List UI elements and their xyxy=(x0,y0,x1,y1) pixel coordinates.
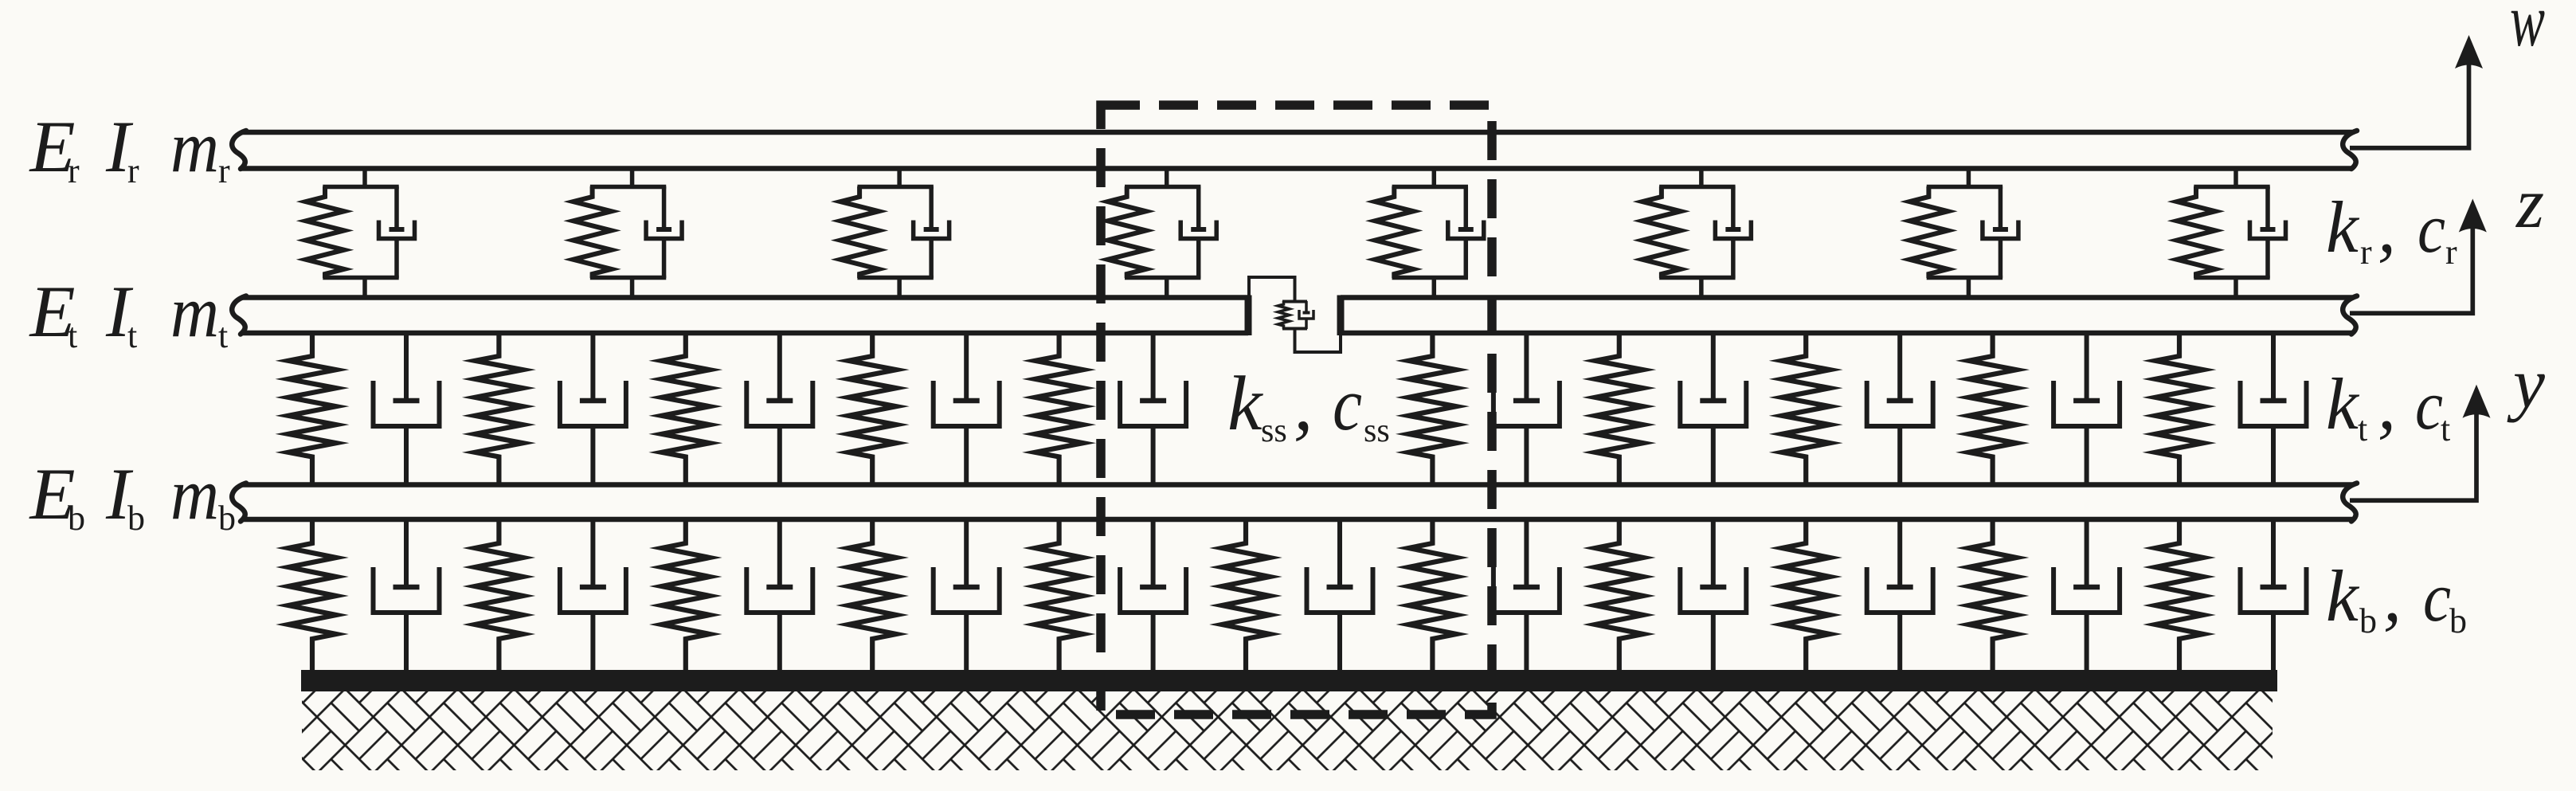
svg-text:m: m xyxy=(170,271,219,352)
wire: unit 5 bottom bar xyxy=(1392,276,1468,280)
svg-text:c: c xyxy=(2417,190,2445,268)
spring k_r4 xyxy=(1108,186,1146,278)
spring k_t3 xyxy=(662,333,710,485)
svg-text:t: t xyxy=(218,316,228,355)
wire: unit 8 top bar xyxy=(2194,185,2269,190)
svg-text:m: m xyxy=(170,453,219,535)
damper c_b8 xyxy=(1680,519,1746,670)
svg-text:r: r xyxy=(2445,233,2457,272)
spring k_r6 xyxy=(1642,186,1681,278)
wire: unit 1 bottom bar xyxy=(323,276,398,280)
damper c_t4 xyxy=(934,333,1000,485)
damper c_r8 xyxy=(2250,186,2286,278)
damper c_b10 xyxy=(2053,519,2120,670)
spring k_b7 xyxy=(1408,519,1456,670)
svg-text:b: b xyxy=(2449,601,2467,640)
svg-text:b: b xyxy=(68,499,85,538)
damper c_b2 xyxy=(560,519,626,670)
damper c_t10 xyxy=(2053,333,2120,485)
wire: unit 3 lower stem xyxy=(897,277,902,298)
damper c_b1 xyxy=(374,519,440,670)
wire: unit 7 bottom bar xyxy=(1927,276,2002,280)
subgrade hatch (basket weave) xyxy=(302,691,2273,770)
wire: unit 6 lower stem xyxy=(1699,277,1704,298)
rail beam left break xyxy=(232,131,246,169)
svg-text:b: b xyxy=(218,499,236,538)
damper c_t9 xyxy=(1867,333,1933,485)
spring k_ss xyxy=(1278,301,1290,329)
wire: unit 3 bottom bar xyxy=(857,276,933,280)
wire: unit 5 top bar xyxy=(1392,185,1468,190)
wire: unit 2 lower stem xyxy=(630,277,635,298)
wire: unit 7 lower stem xyxy=(1967,277,1971,298)
svg-text:c: c xyxy=(2423,559,2451,636)
spring k_t10 xyxy=(1969,333,2017,485)
wire: unit 6 top bar xyxy=(1659,185,1735,190)
spring k_b6 xyxy=(1222,519,1270,670)
svg-text:k: k xyxy=(2326,555,2360,636)
svg-text:ss: ss xyxy=(1261,413,1287,449)
damper c_t3 xyxy=(746,333,812,485)
spring k_b9 xyxy=(1782,519,1830,670)
svg-text:w: w xyxy=(2510,0,2545,62)
slab beam right break xyxy=(2343,296,2357,335)
wire: shear link to right slab segment xyxy=(1295,329,1341,352)
damper c_t8 xyxy=(1680,333,1746,485)
wire: unit 7 top bar xyxy=(1927,185,2002,190)
svg-text:c: c xyxy=(1333,363,1362,446)
spring k_t8 xyxy=(1595,333,1643,485)
damper c_b7 xyxy=(1494,519,1560,670)
spring k_b10 xyxy=(1969,519,2017,670)
spring k_b3 xyxy=(662,519,710,670)
wire: unit 2 top bar xyxy=(590,185,666,190)
damper c_r2 xyxy=(646,186,682,278)
wire: unit 6 bottom bar xyxy=(1659,276,1735,280)
damper c_r1 xyxy=(379,186,415,278)
wire: unit 6 upper stem xyxy=(1699,169,1704,187)
svg-text:k: k xyxy=(1227,361,1263,447)
wire: unit 4 top bar xyxy=(1125,185,1200,190)
spring k_b8 xyxy=(1595,519,1643,670)
wire: unit 4 upper stem xyxy=(1165,169,1169,187)
damper c_t1 xyxy=(374,333,440,485)
wire: unit 2 upper stem xyxy=(630,169,635,187)
rail pad fastener unit 2 (k_r,c_r) xyxy=(574,169,682,298)
svg-text:t: t xyxy=(127,316,137,355)
wire: unit 3 upper stem xyxy=(897,169,902,187)
svg-text:,: , xyxy=(1294,361,1313,447)
svg-text:t: t xyxy=(2441,409,2450,448)
shear unit bracket top bar xyxy=(1282,300,1307,303)
svg-text:y: y xyxy=(2507,344,2545,423)
dashed unit cell box xyxy=(1101,105,1492,715)
damper c_b11 xyxy=(2241,519,2307,670)
svg-text:r: r xyxy=(218,151,230,190)
wire: unit 8 lower stem xyxy=(2233,277,2238,298)
wire: unit 4 lower stem xyxy=(1165,277,1169,298)
spring k_r1 xyxy=(306,186,344,278)
svg-text:m: m xyxy=(170,106,219,187)
rail pad fastener unit 8 (k_r,c_r) xyxy=(2177,169,2286,298)
damper c_r4 xyxy=(1180,186,1216,278)
rail pad fastener unit 3 (k_r,c_r) xyxy=(840,169,949,298)
spring k_b1 xyxy=(288,519,336,670)
track slab beam E_t I_t m_t xyxy=(241,298,2352,334)
damper c_ss xyxy=(1299,301,1313,329)
spring k_r3 xyxy=(840,186,879,278)
svg-text:,: , xyxy=(2378,186,2396,268)
damper c_b3 xyxy=(746,519,812,670)
spring k_t9 xyxy=(1782,333,1830,485)
wire: unit 5 upper stem xyxy=(1432,169,1437,187)
wire: unit 1 top bar xyxy=(323,185,398,190)
svg-text:ss: ss xyxy=(1364,413,1390,449)
svg-text:t: t xyxy=(68,316,77,355)
rail pad fastener unit 5 (k_r,c_r) xyxy=(1375,169,1483,298)
rail pad fastener unit 4 (k_r,c_r) xyxy=(1108,169,1217,298)
spring k_t5 xyxy=(1035,333,1083,485)
spring k_t11 xyxy=(2155,333,2203,485)
wire: unit 7 upper stem xyxy=(1967,169,1971,187)
svg-text:t: t xyxy=(2358,409,2367,448)
spring k_r5 xyxy=(1375,186,1413,278)
wire: unit 8 bottom bar xyxy=(2194,276,2269,280)
damper c_r7 xyxy=(1983,186,2018,278)
damper c_b6 xyxy=(1307,519,1373,670)
rail pad fastener unit 1 (k_r,c_r) xyxy=(306,169,415,298)
slab beam left break xyxy=(232,296,246,335)
rail beam right break xyxy=(2343,131,2357,169)
svg-text:,: , xyxy=(2383,555,2402,636)
spring k_r7 xyxy=(1909,186,1948,278)
base beam left break xyxy=(232,484,246,522)
base beam right break xyxy=(2343,484,2357,522)
damper c_r5 xyxy=(1448,186,1484,278)
spring k_r2 xyxy=(574,186,612,278)
spring k_b4 xyxy=(848,519,896,670)
rigid foundation bar xyxy=(301,670,2277,691)
shear unit bracket bottom bar xyxy=(1282,327,1307,331)
damper c_b5 xyxy=(1120,519,1186,670)
svg-text:,: , xyxy=(2378,363,2396,444)
svg-text:b: b xyxy=(2359,601,2377,640)
damper c_r6 xyxy=(1715,186,1751,278)
spring k_b11 xyxy=(2155,519,2203,670)
wire: unit 1 lower stem xyxy=(362,277,367,298)
slab right segment end cap xyxy=(1337,296,1345,336)
wire: unit 8 upper stem xyxy=(2233,169,2238,187)
y (base deflection) axis arrow xyxy=(2350,413,2476,500)
svg-text:k: k xyxy=(2326,363,2360,444)
spring k_r8 xyxy=(2177,186,2215,278)
rail beam E_r I_r m_r xyxy=(241,132,2352,169)
spring k_t1 xyxy=(288,333,336,485)
wire: shear link from left slab segment xyxy=(1249,277,1295,301)
spring k_t4 xyxy=(848,333,896,485)
wire: unit 5 lower stem xyxy=(1432,277,1437,298)
spring k_t2 xyxy=(475,333,523,485)
damper c_r3 xyxy=(914,186,949,278)
z (slab deflection) axis arrow xyxy=(2350,228,2472,314)
svg-text:r: r xyxy=(127,151,139,190)
svg-text:r: r xyxy=(68,151,80,190)
wire: unit 1 upper stem xyxy=(362,169,367,187)
damper c_b4 xyxy=(934,519,1000,670)
rail pad fastener unit 6 (k_r,c_r) xyxy=(1642,169,1751,298)
svg-text:z: z xyxy=(2515,164,2544,243)
rail pad fastener unit 7 (k_r,c_r) xyxy=(1909,169,2018,298)
damper c_t5 xyxy=(1120,333,1186,485)
damper c_t7 xyxy=(1494,333,1560,485)
spring k_b5 xyxy=(1035,519,1083,670)
svg-text:r: r xyxy=(2360,233,2372,272)
wire: unit 4 bottom bar xyxy=(1125,276,1200,280)
damper c_b9 xyxy=(1867,519,1933,670)
w (rail deflection) axis arrow xyxy=(2350,64,2469,148)
svg-text:b: b xyxy=(127,499,145,538)
svg-text:k: k xyxy=(2326,186,2360,268)
damper c_t11 xyxy=(2241,333,2307,485)
damper c_t2 xyxy=(560,333,626,485)
spring k_t7 xyxy=(1408,333,1456,485)
svg-text:c: c xyxy=(2415,367,2443,444)
spring k_b2 xyxy=(475,519,523,670)
base beam E_b I_b m_b xyxy=(241,485,2352,520)
wire: unit 2 bottom bar xyxy=(590,276,666,280)
slab left segment end cap xyxy=(1245,296,1252,336)
wire: unit 3 top bar xyxy=(857,185,933,190)
